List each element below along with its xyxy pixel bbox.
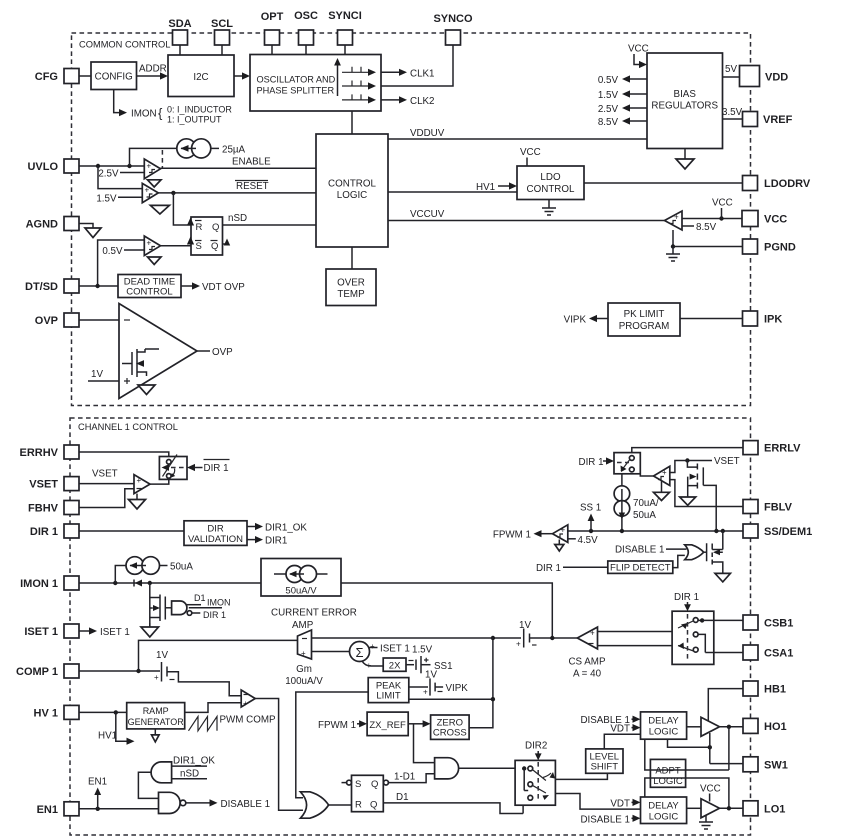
pin VDD <box>740 66 789 87</box>
comparator PWM <box>241 690 255 708</box>
svg-text:FLIP DETECT: FLIP DETECT <box>610 563 671 574</box>
svg-text:+: + <box>301 649 306 658</box>
svg-text:DIR1_OK: DIR1_OK <box>173 756 215 767</box>
signal ground PGND <box>666 247 680 262</box>
svg-text:DT/SD: DT/SD <box>25 281 58 293</box>
pin HV 1 <box>34 705 79 719</box>
wire SCL to I2C <box>221 45 223 55</box>
svg-text:Q: Q <box>371 779 378 790</box>
svg-text:UVLO: UVLO <box>27 161 58 173</box>
svg-text:1V: 1V <box>519 620 531 631</box>
op-amp ERRLV error amp <box>640 466 670 485</box>
svg-text:FBLV: FBLV <box>764 502 793 514</box>
comparator 1.5V UVLO <box>96 166 158 204</box>
wire PEAK LIMIT to OR gate feed <box>409 698 493 700</box>
svg-text:CONTROL: CONTROL <box>328 179 376 190</box>
node DISABLE 1 into OR <box>615 545 687 556</box>
wire oscillator to SYNCO <box>381 45 453 86</box>
svg-text:25µA: 25µA <box>222 144 246 155</box>
node DIR 1 control arrow <box>579 457 615 468</box>
pin ERRLV <box>743 441 801 455</box>
svg-text:1: I_OUTPUT: 1: I_OUTPUT <box>167 115 222 125</box>
pin VSET <box>29 477 79 491</box>
pin FBHV <box>28 501 79 515</box>
op-amp Gm current error amp <box>285 630 323 687</box>
svg-text:DIR 1: DIR 1 <box>674 592 699 603</box>
svg-text:HB1: HB1 <box>764 684 786 696</box>
block CONFIG <box>91 62 137 90</box>
svg-text:1.5V: 1.5V <box>598 90 619 101</box>
node DIR 1 bar control <box>187 460 230 475</box>
wire COMP1 to PWM comparator <box>167 672 241 696</box>
node ENABLE wire to control logic <box>161 157 317 169</box>
svg-text:+: + <box>561 526 566 535</box>
svg-text:0: I_INDUCTOR: 0: I_INDUCTOR <box>167 105 232 115</box>
svg-text:PK LIMIT: PK LIMIT <box>624 309 665 320</box>
node ADDR arrow to I2C <box>137 64 169 80</box>
svg-text:ZX_REF: ZX_REF <box>369 720 406 731</box>
wire SW1 line <box>710 763 743 765</box>
transistor IMON monitor <box>150 583 172 627</box>
battery 1V on CS line <box>491 620 578 649</box>
node VDT into upper delay <box>610 723 640 734</box>
svg-text:R: R <box>355 800 362 811</box>
svg-text:ISET 1: ISET 1 <box>380 644 410 655</box>
block 2X <box>383 658 406 671</box>
svg-text:ERRLV: ERRLV <box>764 443 801 455</box>
transistor inside OVP comparator <box>122 349 159 377</box>
wire SS/DEM1 line <box>568 529 743 533</box>
ground below FPWM comparator <box>555 540 564 552</box>
node RESET wire to control logic <box>158 181 316 196</box>
block OSCILLATOR AND PHASE SPLITTER <box>250 55 381 112</box>
node 2.5V output <box>598 104 647 115</box>
block ZERO CROSS <box>431 715 470 739</box>
ground below VSET error amp <box>129 494 146 509</box>
svg-text:+: + <box>145 186 150 195</box>
svg-text:OVP: OVP <box>35 315 58 327</box>
block DELAY LOGIC high side <box>641 712 687 739</box>
svg-text:DISABLE 1: DISABLE 1 <box>580 814 630 825</box>
svg-text:2.5V: 2.5V <box>98 169 119 180</box>
svg-text:HO1: HO1 <box>764 721 787 733</box>
signal ground below low driver <box>699 816 713 830</box>
wire SDA to I2C <box>179 45 181 55</box>
wire current error amp output to COMP 1 <box>139 640 298 671</box>
svg-text:LOGIC: LOGIC <box>649 811 679 822</box>
node VIPK output <box>564 315 608 326</box>
node FPWM 1 output <box>493 530 553 541</box>
wire oscillator to control logic <box>351 111 353 134</box>
gate AND (DIR1_OK/nSD) <box>138 756 215 799</box>
wire SYNCI to oscillator <box>344 45 346 55</box>
svg-text:CONTROL: CONTROL <box>527 184 575 195</box>
block RAMP GENERATOR <box>127 703 185 729</box>
diode D1 on IMON line <box>134 580 142 587</box>
svg-text:REGULATORS: REGULATORS <box>651 101 718 112</box>
sawtooth PWM COMP symbol <box>189 715 277 731</box>
wire IPK to PK limit program <box>680 318 743 320</box>
svg-text:PROGRAM: PROGRAM <box>619 321 670 332</box>
svg-text:VCC: VCC <box>628 44 649 55</box>
svg-text:HV1: HV1 <box>476 182 495 193</box>
node IMON select labels <box>131 105 232 125</box>
svg-text:BIAS: BIAS <box>674 89 697 100</box>
node nSD wire to control logic <box>223 213 317 225</box>
svg-text:SS 1: SS 1 <box>580 503 601 514</box>
svg-text:CLK1: CLK1 <box>410 68 435 79</box>
svg-text:8.5V: 8.5V <box>598 117 619 128</box>
gate OR (disable/flip) <box>685 545 707 560</box>
wire OR output to latch R <box>329 804 352 806</box>
pin SYNCI <box>328 10 362 45</box>
svg-text:ISET 1: ISET 1 <box>100 627 130 638</box>
svg-text:R: R <box>196 222 203 233</box>
wire ramp to PWM comparator <box>185 703 242 713</box>
wire OVP pin to comparator <box>79 319 119 321</box>
wire OSC to oscillator <box>305 45 307 55</box>
svg-text:CONFIG: CONFIG <box>95 72 133 83</box>
wire sigma to Gm amp <box>312 651 350 653</box>
svg-text:+: + <box>590 629 595 638</box>
node DIR2 control arrow <box>525 741 547 761</box>
svg-text:nSD: nSD <box>180 769 199 780</box>
ground below 2.5V comparator <box>148 180 162 187</box>
node 0.5V output <box>598 75 647 86</box>
svg-text:LIMIT: LIMIT <box>376 691 400 702</box>
pin OPT <box>261 11 284 45</box>
svg-text:RAMP: RAMP <box>143 706 169 716</box>
svg-text:SHIFT: SHIFT <box>591 761 619 772</box>
svg-text:50uA: 50uA <box>170 562 193 573</box>
svg-text:IPK: IPK <box>764 314 782 326</box>
wire DIR 1 to validation <box>79 530 184 532</box>
svg-text:SDA: SDA <box>168 18 191 30</box>
svg-text:CSB1: CSB1 <box>764 618 793 630</box>
switch DIR 1 (CS sense select) <box>672 611 714 664</box>
wire IMON 1 line <box>79 581 261 585</box>
block PEAK LIMIT <box>368 678 409 703</box>
node OVP output <box>197 347 233 358</box>
svg-text:70uA/: 70uA/ <box>633 498 659 509</box>
comparator 2.5V UVLO <box>98 159 160 180</box>
svg-text:LOGIC: LOGIC <box>653 776 683 787</box>
svg-text:HV1: HV1 <box>98 731 117 742</box>
signal ground below LDO <box>542 200 556 216</box>
node DISABLE 1 into upper delay <box>580 715 640 726</box>
block I2C <box>168 55 234 97</box>
svg-text:SYNCO: SYNCO <box>433 13 473 25</box>
pin DT/SD <box>25 279 79 293</box>
driver high side <box>687 717 720 736</box>
svg-text:FPWM 1: FPWM 1 <box>493 530 531 541</box>
svg-text:COMMON CONTROL: COMMON CONTROL <box>79 40 170 50</box>
svg-text:HV 1: HV 1 <box>34 707 58 719</box>
svg-text:0.5V: 0.5V <box>598 75 619 86</box>
pin LO1 <box>743 801 785 816</box>
svg-text:VDDUV: VDDUV <box>410 128 445 139</box>
svg-text:ERRHV: ERRHV <box>19 447 58 459</box>
svg-text:+: + <box>154 673 159 682</box>
pin SDA <box>168 18 191 45</box>
svg-text:IMON 1: IMON 1 <box>20 578 58 590</box>
wire 3.5V to VREF <box>722 107 743 119</box>
svg-text:A = 40: A = 40 <box>573 669 602 680</box>
svg-text:+: + <box>423 688 428 697</box>
svg-text:OVP: OVP <box>212 347 233 358</box>
node 8.5V ref input <box>682 222 717 233</box>
svg-text:VREF: VREF <box>763 114 793 126</box>
wire delay logic to SW node <box>668 733 713 764</box>
svg-text:VCCUV: VCCUV <box>410 209 445 220</box>
svg-text:0.5V: 0.5V <box>102 246 123 257</box>
node HV1 branch <box>98 712 135 744</box>
wire CONFIG to IMON select <box>114 90 127 117</box>
node VDT OVP output <box>181 282 245 293</box>
svg-text:VALIDATION: VALIDATION <box>188 534 243 545</box>
pin SYNCO <box>433 13 473 45</box>
pin CSA1 <box>743 645 793 660</box>
node VSET bias <box>670 456 740 473</box>
wire HV 1 input <box>79 710 127 714</box>
svg-text:D1: D1 <box>194 593 206 603</box>
wire switch to LEVEL SHIFT <box>555 773 607 779</box>
comparator 0.5V DT/SD <box>98 236 191 286</box>
transistor SS discharge <box>707 531 723 573</box>
svg-text:S: S <box>355 779 361 790</box>
node D1 output wire <box>383 792 523 814</box>
svg-text:EN1: EN1 <box>37 804 58 816</box>
pin VCC <box>742 211 787 227</box>
svg-text:+: + <box>137 476 142 485</box>
svg-text:Σ: Σ <box>355 645 363 660</box>
svg-text:+: + <box>147 239 152 248</box>
wire 50uA/V output to CS node <box>341 583 552 638</box>
pin SW1 <box>743 757 788 772</box>
block ZX_REF <box>367 712 408 736</box>
wire COMP 1 line <box>79 669 160 673</box>
node VDDUV wire <box>388 128 647 139</box>
svg-text:VDT OVP: VDT OVP <box>202 282 245 293</box>
svg-text:+: + <box>370 642 375 651</box>
svg-text:DIR 1: DIR 1 <box>204 463 229 474</box>
wire UVLO input <box>79 164 144 168</box>
wire I2C to oscillator <box>234 72 250 79</box>
wire DT/SD to dead time control <box>79 284 118 288</box>
wire LDO to LDODRV <box>584 182 743 184</box>
svg-text:1V: 1V <box>425 670 437 681</box>
wire EN1 to NAND <box>79 807 159 811</box>
node ISET 1 stub <box>79 627 130 638</box>
node SS 1 arrow <box>580 503 601 532</box>
svg-text:CURRENT ERROR: CURRENT ERROR <box>271 608 357 619</box>
block DELAY LOGIC low side <box>641 797 687 824</box>
capacitor 1V on COMP 1 <box>154 650 175 682</box>
ground inside OVP comparator <box>138 385 155 395</box>
svg-text:RESET: RESET <box>236 181 269 192</box>
svg-text:ENABLE: ENABLE <box>232 157 271 168</box>
pin FBLV <box>743 500 793 514</box>
svg-text:VCC: VCC <box>764 214 787 226</box>
svg-text:nSD: nSD <box>228 213 247 224</box>
battery VIPK <box>409 678 468 696</box>
svg-text:DIR 1: DIR 1 <box>30 526 58 538</box>
svg-text:OSC: OSC <box>294 10 318 22</box>
svg-text:VDT: VDT <box>610 723 630 734</box>
svg-text:2X: 2X <box>389 660 401 671</box>
svg-text:DIR1: DIR1 <box>265 536 287 547</box>
pin HB1 <box>743 681 786 696</box>
svg-text:+: + <box>147 162 152 171</box>
wire CS line to Gm amp <box>312 637 493 639</box>
battery 1.5V SS1 <box>406 645 453 681</box>
comparator FPWM 4.5V <box>553 525 599 546</box>
wire HO1 node to adaptive logic <box>728 727 730 770</box>
node FPWM 1 into ZX_REF <box>318 720 367 731</box>
svg-text:+: + <box>516 640 521 649</box>
node DIR1_OK output <box>247 523 307 534</box>
pin COMP 1 <box>16 664 79 678</box>
ground below ERRLV amp <box>654 481 670 501</box>
switch DIR2 <box>515 760 555 813</box>
sigma summer <box>350 642 376 671</box>
switch DIR1 (ERRLV select) <box>614 453 640 474</box>
wire CFG to CONFIG <box>79 75 91 77</box>
pin DIR 1 <box>30 524 79 538</box>
ground arrow below ramp generator <box>152 729 160 742</box>
pin HO1 <box>743 718 787 733</box>
wire switch to low delay logic <box>555 794 640 810</box>
wire switch to CSB1 <box>702 619 743 621</box>
svg-text:VSET: VSET <box>92 469 118 480</box>
svg-text:1.5V: 1.5V <box>96 193 117 204</box>
pin EN1 <box>37 802 79 816</box>
node VDT into lower delay <box>610 798 640 809</box>
wire HB1 to driver <box>708 689 743 721</box>
block CONTROL LOGIC <box>316 134 388 247</box>
pin SCL <box>211 18 233 45</box>
svg-text:CHANNEL 1 CONTROL: CHANNEL 1 CONTROL <box>78 422 178 432</box>
wire driver to LO1 <box>720 806 744 810</box>
svg-text:5V: 5V <box>725 64 737 75</box>
svg-text:VIPK: VIPK <box>564 315 587 326</box>
svg-text:Q: Q <box>212 222 219 233</box>
svg-text:DIR2: DIR2 <box>525 741 547 752</box>
svg-text:DIR 1: DIR 1 <box>203 610 226 620</box>
node 8.5V output <box>598 117 647 128</box>
svg-text:TEMP: TEMP <box>337 289 365 300</box>
wire 5V to VDD <box>723 64 740 77</box>
node VCCUV wire <box>388 209 665 221</box>
svg-text:1V: 1V <box>91 369 103 380</box>
op-amp CS AMP A=40 <box>568 627 672 679</box>
wire adaptive logic to delay logic high <box>645 739 729 770</box>
node VCC feed to low driver <box>700 783 721 801</box>
svg-text:DIR 1: DIR 1 <box>579 457 604 468</box>
svg-text:AGND: AGND <box>26 219 58 231</box>
svg-text:VCC: VCC <box>700 783 721 794</box>
pin IMON 1 <box>20 576 79 590</box>
pin PGND <box>743 239 796 254</box>
svg-text:COMP 1: COMP 1 <box>16 666 58 678</box>
ground below IMON transistor <box>141 623 159 637</box>
svg-text:CFG: CFG <box>35 71 58 83</box>
wire driver to HO1 <box>720 725 744 729</box>
svg-text:PGND: PGND <box>764 242 796 254</box>
label ADPT LOGIC <box>653 765 683 787</box>
node DISABLE 1 into lower delay <box>580 814 640 825</box>
svg-text:Q: Q <box>211 241 218 252</box>
svg-text:Q: Q <box>370 800 377 811</box>
svg-text:VSET: VSET <box>714 456 740 467</box>
wire OPT to oscillator <box>271 45 273 55</box>
svg-text:GENERATOR: GENERATOR <box>128 717 185 727</box>
ground AGND <box>85 228 101 238</box>
wire sigma to 2X <box>362 661 383 666</box>
pin VREF <box>743 112 793 127</box>
svg-text:SW1: SW1 <box>764 759 788 771</box>
svg-text:LO1: LO1 <box>764 803 785 815</box>
svg-text:D1: D1 <box>396 792 409 803</box>
wire zx tap to AND gate <box>414 724 435 763</box>
pin AGND <box>26 217 79 231</box>
svg-text:{: { <box>158 106 163 121</box>
pin SS/DEM1 <box>743 524 812 538</box>
svg-text:S: S <box>196 241 202 252</box>
svg-text:EN1: EN1 <box>88 777 107 788</box>
pin OSC <box>294 10 318 45</box>
svg-text:DIR: DIR <box>207 523 224 534</box>
wire switch to CSA1 <box>705 652 743 654</box>
wire control logic to LDO <box>388 191 517 193</box>
svg-text:Gm: Gm <box>296 664 312 675</box>
svg-text:50uA: 50uA <box>633 510 656 521</box>
svg-text:CROSS: CROSS <box>433 727 467 738</box>
ground below VSET follower <box>680 497 696 505</box>
gate AND (zx / 1-D1) <box>435 758 459 779</box>
node CLK2 <box>381 96 435 107</box>
svg-text:VIPK: VIPK <box>446 683 469 694</box>
svg-text:VDT: VDT <box>610 798 630 809</box>
wire adaptive logic to delay logic low <box>645 778 729 808</box>
driver low side <box>687 799 720 818</box>
svg-text:SCL: SCL <box>211 18 233 30</box>
svg-text:VDD: VDD <box>765 72 788 84</box>
label CURRENT ERROR AMP <box>271 608 357 632</box>
current source 70uA/50uA <box>614 474 659 531</box>
svg-text:+: + <box>243 699 248 708</box>
ground below bias regulators <box>676 149 694 170</box>
pin CSB1 <box>743 615 793 630</box>
svg-text:LOGIC: LOGIC <box>337 190 368 201</box>
pin LDODRV <box>743 176 811 191</box>
node 1-D1 wire to AND gate <box>388 772 434 783</box>
dashed box CHANNEL 1 CONTROL <box>70 418 751 835</box>
svg-text:3.5V: 3.5V <box>722 107 743 118</box>
wire PEAK LIMIT left to OR gate <box>296 692 368 798</box>
svg-text:FPWM 1: FPWM 1 <box>318 720 356 731</box>
svg-text:ADDR: ADDR <box>139 64 167 75</box>
svg-text:IMON: IMON <box>207 598 231 608</box>
wire FBLV to error amp <box>670 480 743 507</box>
wire comparator to PGND <box>671 230 743 249</box>
svg-text:OSCILLATOR AND: OSCILLATOR AND <box>257 75 336 85</box>
svg-text:CS AMP: CS AMP <box>568 657 605 668</box>
switch DIR1 (ERRHV select) <box>159 455 187 480</box>
svg-text:2.5V: 2.5V <box>598 104 619 115</box>
svg-text:DELAY: DELAY <box>648 715 679 726</box>
block LEVEL SHIFT <box>586 749 623 773</box>
